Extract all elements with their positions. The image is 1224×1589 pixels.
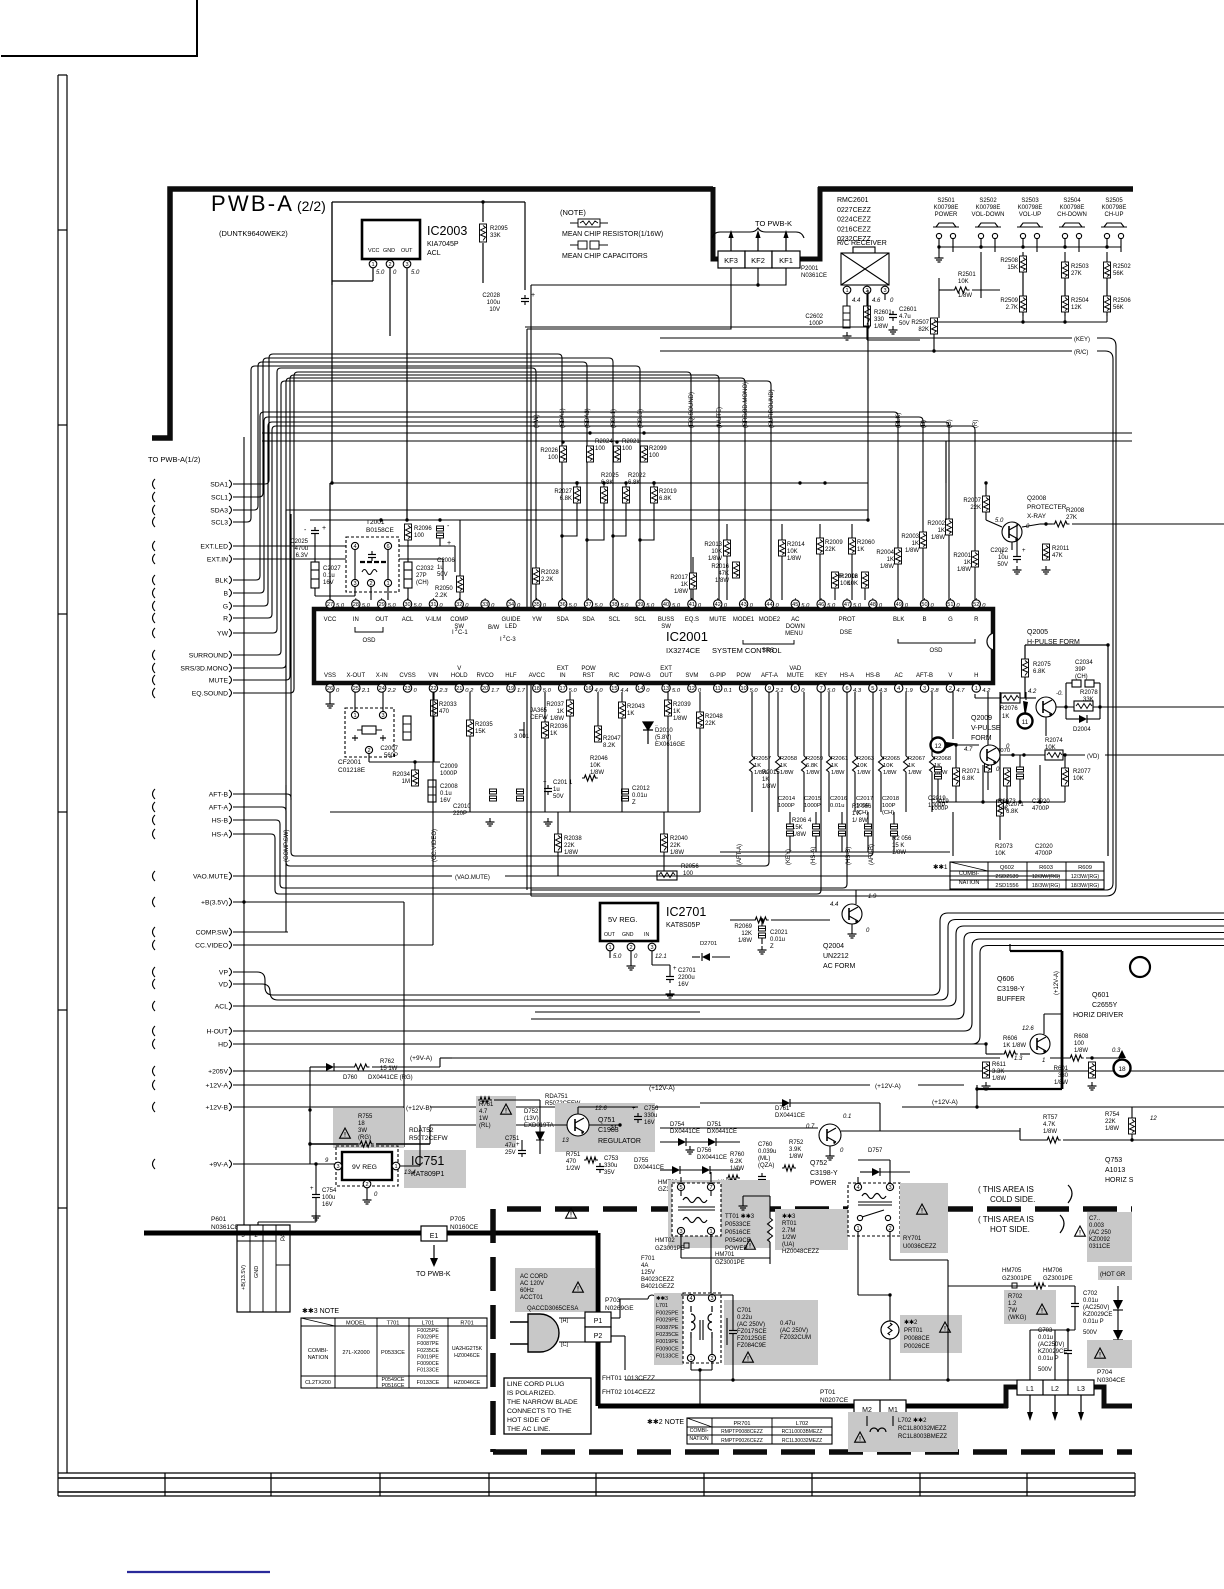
svg-text:R2056: R2056	[681, 864, 699, 870]
svg-text:100u: 100u	[322, 1195, 335, 1201]
svg-text:R2002: R2002	[927, 521, 945, 527]
svg-text:1/8W: 1/8W	[674, 589, 688, 595]
svg-text:1/8W: 1/8W	[874, 324, 888, 330]
svg-text:3: 3	[923, 686, 926, 692]
svg-text:!: !	[505, 1109, 507, 1115]
wire left bus verticals down	[526, 329, 528, 890]
svg-text:SRS/3D.MONO: SRS/3D.MONO	[180, 666, 228, 673]
wire Q606 base node	[985, 1044, 987, 1054]
svg-text:2SD1556: 2SD1556	[995, 883, 1018, 889]
svg-text:CH-UP: CH-UP	[1105, 212, 1124, 218]
svg-text:SURROUND: SURROUND	[189, 653, 228, 660]
IC2001 bottom pin 5	[869, 684, 877, 692]
svg-text:1/2W: 1/2W	[566, 1166, 580, 1172]
svg-text:CF2001: CF2001	[338, 759, 362, 766]
svg-text:15 1W: 15 1W	[380, 1066, 398, 1072]
svg-text:2.2K: 2.2K	[541, 577, 553, 583]
svg-text:C01218E: C01218E	[338, 767, 366, 774]
wires RT57 region	[1020, 1139, 1045, 1141]
wires hpulse output	[1056, 706, 1074, 708]
svg-text:KZ0029CE: KZ0029CE	[1038, 1349, 1067, 1355]
svg-text:(SCL3): (SCL3)	[638, 409, 644, 428]
connector stub EXT.IN	[153, 554, 156, 564]
connector stub EXT.LED	[153, 541, 156, 551]
svg-text:(SURROUND): (SURROUND)	[769, 389, 775, 428]
resistor R611 3.3K	[983, 1062, 990, 1078]
IC2001 bottom pin 22	[429, 684, 437, 692]
svg-text:( THIS AREA IS: ( THIS AREA IS	[978, 1215, 1034, 1224]
svg-text:R2048: R2048	[705, 714, 723, 720]
IC2001 top pin 46	[817, 600, 825, 608]
switch column wires	[980, 252, 982, 298]
svg-text:12.6: 12.6	[1022, 1026, 1034, 1032]
connector stub G	[153, 601, 156, 611]
wire HS collect row 1	[233, 692, 847, 888]
svg-text:(G): (G)	[947, 419, 953, 428]
wire SCL1 route	[233, 358, 613, 600]
svg-text:4: 4	[353, 544, 356, 550]
svg-text:C3198-Y: C3198-Y	[997, 986, 1025, 993]
svg-text:1: 1	[856, 1226, 859, 1232]
wire KF2 stub	[757, 268, 759, 285]
thick 12V-A vertical	[1061, 951, 1064, 1089]
thick border notch around KF connector	[713, 187, 820, 259]
SRS bracket	[743, 640, 794, 644]
resistor R2075 6.8K	[1022, 659, 1029, 677]
svg-text:A1013: A1013	[1105, 1167, 1125, 1174]
IC2001 bottom pin 24	[378, 684, 386, 692]
svg-text:R2075: R2075	[1033, 662, 1051, 668]
svg-text:18: 18	[1118, 1066, 1126, 1073]
svg-text:6: 6	[845, 686, 848, 692]
IC2001 bottom pin 18	[533, 684, 541, 692]
svg-text:F0235CE: F0235CE	[656, 1332, 679, 1338]
svg-text:(+12V-A): (+12V-A)	[1054, 971, 1060, 995]
switch common bus	[939, 246, 1121, 248]
svg-text:22K: 22K	[1105, 1119, 1116, 1125]
svg-text:1/8W: 1/8W	[931, 535, 945, 541]
connector stub H-OUT	[153, 1026, 156, 1036]
svg-text:K00798E: K00798E	[976, 205, 1001, 211]
svg-text:LED: LED	[505, 624, 517, 630]
capacitor chip q2009	[1017, 767, 1024, 772]
svg-text:40: 40	[663, 602, 669, 608]
svg-text:2: 2	[388, 262, 391, 268]
IC2001 bottom pin 7	[817, 684, 825, 692]
svg-text:46: 46	[818, 602, 824, 608]
svg-text:10V: 10V	[489, 307, 500, 313]
svg-text:PWB-A: PWB-A	[211, 191, 294, 216]
connector stub R	[153, 613, 156, 623]
gray block IC751 label	[404, 1150, 466, 1188]
svg-text:Q601: Q601	[1092, 992, 1109, 999]
svg-text:BLK: BLK	[215, 578, 228, 585]
resistor R2059 6.8K	[803, 692, 805, 756]
svg-text:L702 ✱✱2: L702 ✱✱2	[898, 1417, 927, 1424]
svg-text:2: 2	[710, 1356, 713, 1362]
resistor R2061 1K	[828, 692, 830, 756]
RY701 pin 4	[854, 1183, 861, 1190]
svg-text:VCC: VCC	[368, 248, 379, 254]
svg-text:NATION: NATION	[308, 1355, 329, 1361]
svg-text:DOWN: DOWN	[786, 624, 805, 630]
connector stub VP	[153, 967, 156, 977]
gray block R755	[333, 1108, 404, 1148]
connector E1 box	[421, 1226, 447, 1241]
svg-text:AC: AC	[895, 673, 904, 679]
svg-text:MUTE: MUTE	[787, 673, 804, 679]
svg-text:2: 2	[369, 581, 372, 587]
svg-text:P704: P704	[1097, 1369, 1113, 1376]
connector stub HD	[153, 1039, 156, 1049]
svg-text:5.0: 5.0	[827, 603, 836, 609]
IC2701 pin 2	[627, 943, 635, 951]
svg-text:(AFT-A): (AFT-A)	[737, 844, 743, 865]
svg-text:CH-DOWN: CH-DOWN	[1057, 212, 1087, 218]
svg-text:V: V	[948, 673, 952, 679]
wires crystal	[354, 692, 356, 711]
svg-text:E1: E1	[430, 1233, 439, 1240]
svg-text:(KEY): (KEY)	[1074, 337, 1090, 343]
svg-text:AFT-B: AFT-B	[916, 673, 933, 679]
svg-text:!: !	[1041, 1309, 1043, 1315]
svg-text:BUSS: BUSS	[658, 617, 674, 623]
svg-text:(BLK): (BLK)	[896, 413, 902, 428]
svg-text:9: 9	[768, 686, 771, 692]
wire AFT collect row 1	[233, 692, 873, 856]
svg-text:4: 4	[897, 686, 900, 692]
svg-text:P2001: P2001	[801, 266, 819, 272]
svg-text:0.003: 0.003	[1089, 1223, 1105, 1229]
svg-text:(CC.VIDEO): (CC.VIDEO)	[432, 829, 438, 862]
svg-text:TO PWB-K: TO PWB-K	[755, 219, 792, 228]
svg-text:(+12V-A): (+12V-A)	[649, 1085, 675, 1092]
svg-text:R2067: R2067	[908, 756, 925, 762]
svg-text:2: 2	[365, 1182, 368, 1188]
svg-text:C2007: C2007	[380, 746, 398, 752]
connector stub CC.VIDEO	[153, 940, 156, 950]
svg-text:IN: IN	[353, 617, 359, 623]
svg-text:C-3: C-3	[506, 637, 516, 643]
wire Q606 collector	[1043, 1014, 1045, 1034]
svg-text:4: 4	[689, 1296, 692, 1302]
wire BLK route	[233, 412, 898, 600]
svg-text:1: 1	[975, 686, 978, 692]
svg-text:V-PULSE: V-PULSE	[971, 725, 1001, 732]
bottom node line q2009	[938, 801, 1065, 803]
wire EXT.LED	[233, 545, 455, 547]
svg-text:ACL: ACL	[215, 1004, 228, 1011]
resistor R2026 100	[560, 446, 567, 462]
IC2003 pin 3	[403, 260, 411, 268]
svg-text:28: 28	[353, 602, 359, 608]
svg-text:24: 24	[379, 686, 385, 692]
R/C receiver symbol	[853, 247, 875, 253]
svg-text:1K: 1K	[550, 731, 557, 737]
svg-text:F0025PE: F0025PE	[417, 1328, 439, 1334]
svg-text:C2017: C2017	[856, 796, 873, 802]
dashed bottom border	[493, 1449, 1132, 1455]
svg-text:AFT-B: AFT-B	[209, 792, 229, 799]
svg-text:1/8W: 1/8W	[892, 850, 906, 856]
svg-text:HZ0046CE: HZ0046CE	[454, 1380, 481, 1386]
svg-text:0.1: 0.1	[724, 688, 732, 694]
svg-text:R701: R701	[460, 1321, 473, 1327]
svg-text:R2061: R2061	[831, 756, 848, 762]
svg-text:T2001: T2001	[366, 519, 385, 526]
svg-text:5.0: 5.0	[750, 688, 759, 694]
svg-text:1.7: 1.7	[491, 688, 500, 694]
svg-text:R2017: R2017	[670, 575, 688, 581]
svg-text:YW: YW	[532, 617, 542, 623]
svg-text:(EQ.SOUND): (EQ.SOUND)	[689, 392, 695, 428]
resistor R2504 12K	[1062, 296, 1069, 312]
wire long horizontal pair	[262, 432, 1132, 434]
svg-text:SCL3: SCL3	[211, 520, 228, 527]
9V REG pin 2	[363, 1180, 371, 1188]
ground Q2004	[851, 924, 853, 930]
svg-text:KAT8S05P: KAT8S05P	[666, 922, 700, 929]
svg-text:50: 50	[921, 602, 927, 608]
connector stub HS-A	[153, 829, 156, 839]
node bus line y483	[332, 482, 868, 484]
svg-text:SDA3: SDA3	[210, 508, 228, 515]
wires TT01	[680, 1191, 682, 1196]
ground VSS	[329, 692, 331, 700]
svg-text:1/8W: 1/8W	[831, 770, 845, 776]
svg-text:OSD: OSD	[362, 638, 376, 644]
svg-text:4.7: 4.7	[956, 688, 965, 694]
svg-text:330: 330	[1058, 1073, 1069, 1079]
svg-text:0.01u: 0.01u	[632, 793, 647, 799]
svg-text:1/8W: 1/8W	[992, 1076, 1006, 1082]
svg-text:12: 12	[935, 743, 942, 750]
svg-text:1/8W: 1/8W	[1054, 1080, 1068, 1086]
grounds Q2008	[1016, 566, 1018, 570]
svg-text:SVM: SVM	[685, 673, 698, 679]
IC2001 bottom pin 9	[765, 684, 773, 692]
svg-text:6: 6	[386, 544, 389, 550]
resistor HM bridge	[1032, 1283, 1046, 1289]
svg-text:B: B	[223, 591, 228, 598]
svg-text:1: 1	[709, 1229, 712, 1235]
svg-text:R608: R608	[1074, 1034, 1089, 1040]
svg-text:UA2HG2T5K: UA2HG2T5K	[452, 1346, 483, 1352]
svg-text:(DUNTK9640WEK2): (DUNTK9640WEK2)	[219, 229, 288, 238]
svg-text:5.0: 5.0	[595, 603, 604, 609]
wire G route	[233, 422, 949, 606]
svg-text:R2047: R2047	[603, 736, 621, 742]
svg-text:1/ 8W: 1/ 8W	[852, 818, 868, 824]
svg-text:D755: D755	[634, 1158, 649, 1164]
svg-text:RY701: RY701	[903, 1236, 922, 1242]
svg-text:HZ0048CEZZ: HZ0048CEZZ	[782, 1249, 819, 1255]
svg-text:1/2W: 1/2W	[782, 1235, 796, 1241]
svg-text:C702: C702	[1083, 1291, 1098, 1297]
svg-text:5.0: 5.0	[801, 603, 810, 609]
svg-text:THE AC LINE.: THE AC LINE.	[507, 1426, 551, 1433]
svg-text:G: G	[223, 604, 228, 611]
wires L701	[690, 1338, 692, 1354]
svg-text:12/3W/(RG): 12/3W/(RG)	[1071, 874, 1099, 880]
svg-text:SW: SW	[454, 624, 464, 630]
svg-text:27P: 27P	[416, 573, 427, 579]
svg-text:5.0: 5.0	[620, 603, 629, 609]
relay RY701 dashed box	[848, 1183, 900, 1236]
svg-text:!: !	[1079, 1231, 1081, 1237]
svg-text:+9V-A: +9V-A	[209, 1162, 228, 1169]
svg-text:0216CEZZ: 0216CEZZ	[837, 226, 872, 233]
svg-text:1u: 1u	[553, 787, 560, 793]
svg-text:18/3W/(RG): 18/3W/(RG)	[1032, 883, 1060, 889]
svg-text:0.47u: 0.47u	[780, 1321, 795, 1327]
svg-text:C2016: C2016	[830, 796, 847, 802]
9V REG box dashed outline	[336, 1146, 398, 1186]
svg-text:43: 43	[740, 602, 746, 608]
wire receiver pins	[846, 294, 848, 306]
resistor R2035 15K	[467, 720, 474, 736]
fuse F701	[648, 1295, 664, 1299]
svg-text:47K: 47K	[1052, 553, 1063, 559]
svg-text:F0235CE: F0235CE	[417, 1348, 439, 1354]
svg-text:RVCO: RVCO	[476, 673, 494, 679]
svg-text:Q606: Q606	[997, 976, 1014, 983]
svg-text:4.2: 4.2	[982, 688, 991, 694]
svg-text:PROTECTER: PROTECTER	[1027, 504, 1067, 511]
grounds IC2701	[630, 962, 632, 966]
svg-text:(QZA): (QZA)	[758, 1163, 774, 1169]
svg-text:B4023CEZZ: B4023CEZZ	[641, 1277, 674, 1283]
ground reg	[366, 1188, 368, 1196]
svg-text:R2058: R2058	[780, 756, 797, 762]
svg-text:OUT: OUT	[375, 617, 388, 623]
svg-text:56K: 56K	[1113, 305, 1124, 311]
svg-text:F0087PE: F0087PE	[417, 1341, 439, 1347]
svg-text:C-1: C-1	[458, 630, 468, 636]
svg-text:8: 8	[794, 686, 797, 692]
IC2001 bottom pin 6	[843, 684, 851, 692]
svg-text:R2071: R2071	[962, 769, 980, 775]
svg-text:(R): (R)	[973, 420, 979, 428]
svg-text:F701: F701	[641, 1256, 655, 1262]
svg-text:(AC250V): (AC250V)	[1083, 1305, 1109, 1311]
svg-text:0311CE: 0311CE	[1089, 1244, 1110, 1250]
wire Q2008 collector right	[1022, 524, 1040, 527]
connector stub SDA1	[153, 479, 156, 489]
chip caps row below	[490, 789, 497, 794]
svg-text:1K: 1K	[681, 582, 688, 588]
svg-text:AFT-A: AFT-A	[209, 805, 229, 812]
capacitor C2027 0.1u 16V	[311, 562, 319, 588]
IC2001 top pin 43	[739, 600, 747, 608]
wire C2028 drop	[524, 202, 526, 290]
IC2001 top pin 50	[920, 600, 928, 608]
svg-text:MUTE: MUTE	[709, 617, 726, 623]
wire +B 3.5V	[233, 901, 404, 903]
svg-text:R: R	[974, 617, 979, 623]
svg-text:R2039: R2039	[673, 702, 691, 708]
resistor R601 330	[1089, 1062, 1096, 1078]
svg-text:OUT: OUT	[660, 673, 673, 679]
resistor R2019 6.8K	[651, 487, 658, 503]
connector stub +12V-A	[153, 1080, 156, 1090]
svg-text:(AC 250V): (AC 250V)	[780, 1328, 808, 1334]
svg-text:R2095: R2095	[490, 226, 508, 232]
svg-text:R751: R751	[566, 1152, 581, 1158]
svg-text:SDA: SDA	[556, 617, 568, 623]
IC2001 bottom pin 3	[920, 684, 928, 692]
svg-text:C2019: C2019	[931, 799, 949, 805]
svg-text:GZ3001PE: GZ3001PE	[1002, 1276, 1032, 1282]
svg-text:HOT SIDE.: HOT SIDE.	[990, 1225, 1030, 1234]
resistor R2021 100	[614, 446, 621, 462]
svg-text:56K: 56K	[1113, 271, 1124, 277]
svg-text:27K: 27K	[1071, 271, 1082, 277]
svg-text:50V: 50V	[553, 794, 564, 800]
arrows below L boxes	[1029, 1395, 1031, 1412]
svg-text:10K: 10K	[958, 279, 969, 285]
svg-text:THE NARROW BLADE: THE NARROW BLADE	[507, 1399, 578, 1406]
svg-text:5.0: 5.0	[613, 954, 622, 960]
svg-text:0.01u P: 0.01u P	[1083, 1319, 1104, 1325]
svg-text:1/8W: 1/8W	[789, 1154, 803, 1160]
svg-text:!: !	[859, 1437, 861, 1443]
resistor R2036 1K	[542, 722, 549, 738]
svg-text:Z: Z	[770, 944, 774, 950]
svg-text:47: 47	[844, 602, 850, 608]
resistor R2060 1K	[849, 538, 856, 554]
svg-text:10K: 10K	[711, 549, 722, 555]
connector stub AFT-B	[153, 789, 156, 799]
svg-text:21: 21	[456, 686, 462, 692]
svg-text:R2011: R2011	[1052, 546, 1070, 552]
svg-text:(+12V-A): (+12V-A)	[932, 1099, 958, 1106]
svg-text:1: 1	[689, 1356, 692, 1362]
svg-text:1/8W: 1/8W	[958, 293, 972, 299]
svg-text:D756: D756	[697, 1148, 712, 1154]
svg-text:R2076: R2076	[1000, 706, 1018, 712]
svg-text:9V REG: 9V REG	[352, 1164, 377, 1171]
svg-text:P705: P705	[450, 1216, 466, 1223]
svg-text:FZ084C9E: FZ084C9E	[737, 1343, 766, 1349]
resistor R2016 47K	[733, 562, 740, 578]
circled 11 connector	[1023, 701, 1028, 718]
IC2001 top pin 47	[843, 600, 851, 608]
svg-text:22: 22	[430, 686, 436, 692]
svg-text:K00798E: K00798E	[1018, 205, 1043, 211]
IC2001 top pin 45	[791, 600, 799, 608]
svg-text:R2077: R2077	[1073, 769, 1091, 775]
svg-text:52: 52	[973, 602, 979, 608]
connector stub VD	[153, 979, 156, 989]
svg-text:22K: 22K	[825, 547, 836, 553]
L701 coils	[691, 1306, 695, 1338]
svg-text:C703: C703	[1038, 1328, 1053, 1334]
svg-text:Q2004: Q2004	[823, 943, 844, 950]
resistor R2601	[864, 306, 871, 326]
svg-text:F0133CE: F0133CE	[656, 1354, 679, 1360]
svg-text:5.0: 5.0	[362, 603, 371, 609]
svg-text:16V: 16V	[322, 1202, 333, 1208]
svg-text:GZ3001PE: GZ3001PE	[1043, 1276, 1073, 1282]
svg-text:HMT02: HMT02	[655, 1238, 675, 1244]
svg-text:VAD: VAD	[789, 666, 802, 672]
wire MUTE route	[233, 375, 719, 680]
svg-text:C2034: C2034	[1075, 660, 1093, 666]
svg-text:N0361CE: N0361CE	[801, 273, 827, 279]
svg-text:+205V: +205V	[208, 1069, 228, 1076]
svg-text:Q2005: Q2005	[1027, 629, 1048, 636]
